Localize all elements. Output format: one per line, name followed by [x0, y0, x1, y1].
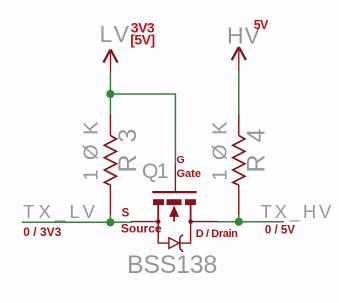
svg-text:0 / 3V3: 0 / 3V3 — [23, 225, 61, 239]
svg-text:G: G — [177, 154, 185, 166]
svg-text:1ØK: 1ØK — [81, 112, 103, 181]
svg-text:R4: R4 — [243, 117, 271, 173]
svg-text:1ØK: 1ØK — [210, 112, 232, 181]
svg-text:Source: Source — [121, 222, 162, 236]
svg-text:Q1: Q1 — [142, 160, 168, 183]
svg-text:TX_HV: TX_HV — [261, 201, 335, 223]
svg-text:Gate: Gate — [177, 168, 201, 180]
svg-text:5V: 5V — [254, 18, 269, 32]
svg-text:R3: R3 — [114, 117, 142, 173]
svg-text:D / Drain: D / Drain — [196, 228, 238, 240]
svg-text:[5V]: [5V] — [130, 32, 154, 48]
svg-text:0 / 5V: 0 / 5V — [265, 225, 295, 237]
svg-text:TX_LV: TX_LV — [23, 201, 99, 223]
svg-text:S: S — [122, 207, 130, 219]
svg-text:BSS138: BSS138 — [127, 251, 217, 279]
svg-text:LV: LV — [100, 21, 132, 47]
